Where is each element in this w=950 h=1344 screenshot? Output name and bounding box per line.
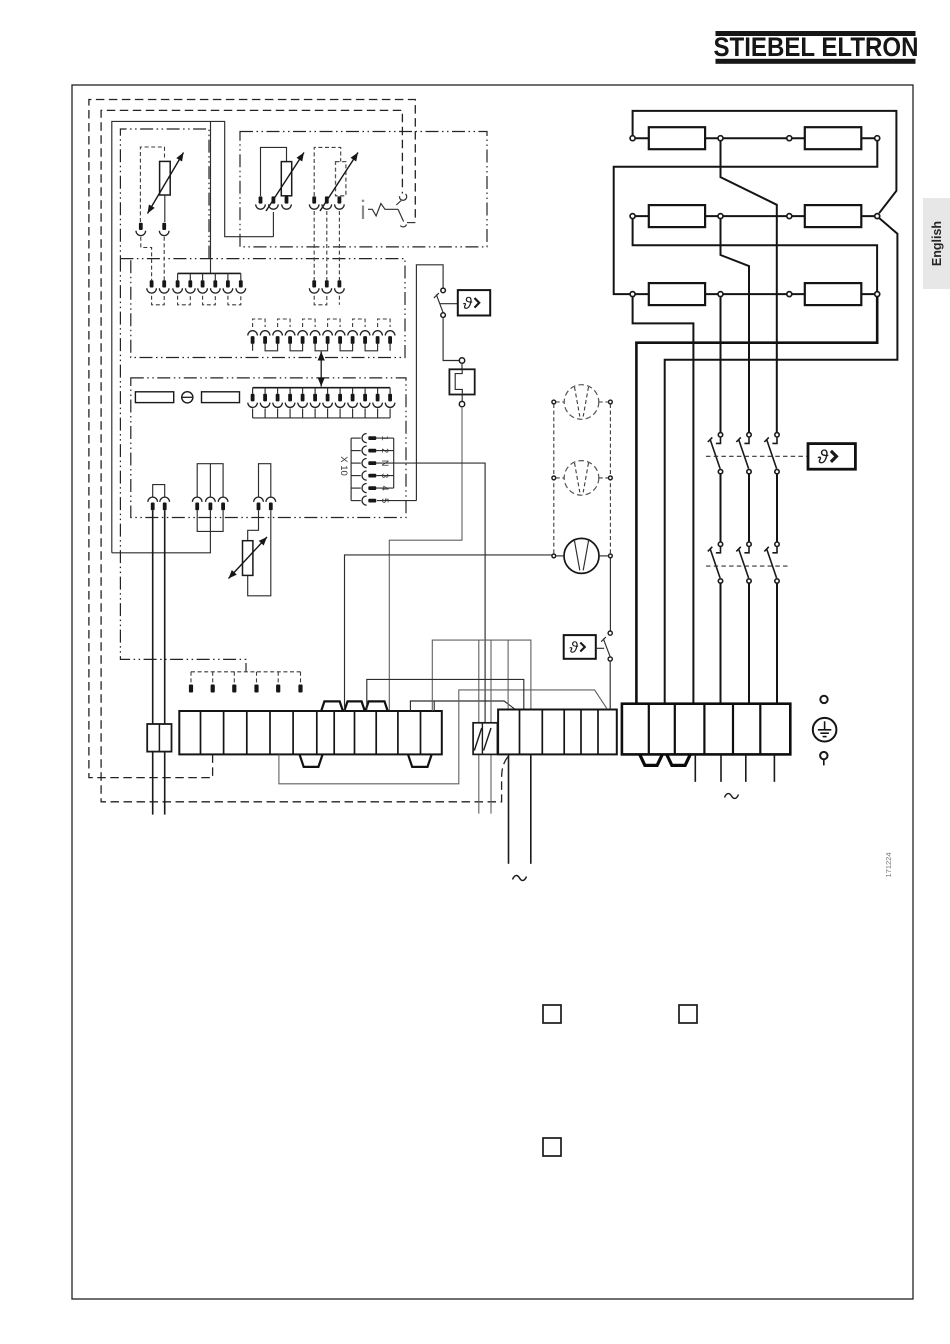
X4 jumper shoe 2 <box>667 754 691 765</box>
sensor bus wire (hook) <box>112 121 274 552</box>
svg-text:STIEBEL ELTRON: STIEBEL ELTRON <box>714 32 919 62</box>
sensor R3 arrow <box>320 153 358 212</box>
mains lead N <box>530 754 532 863</box>
bottom triple contacts <box>192 497 228 510</box>
K2 output wires <box>721 583 778 703</box>
K2 linkage line <box>706 565 790 567</box>
gray drop 3 <box>507 640 509 709</box>
S1 sensing line <box>440 303 458 305</box>
STB actuation zigzag <box>368 204 398 216</box>
dashed service line to comb <box>120 259 246 672</box>
X4 output leads <box>695 754 774 782</box>
contactor K2 pole 3 <box>764 542 779 583</box>
S1 blade tick <box>434 293 439 298</box>
English side tab <box>923 198 950 289</box>
X1 top plug bump 1 <box>321 701 343 711</box>
contactor K1 pole 1 <box>708 433 723 474</box>
X1 top plug bump 2 <box>344 701 365 711</box>
row3 bottom return <box>636 297 877 704</box>
page frame <box>72 85 913 1299</box>
S1 bottom contact <box>441 313 446 318</box>
X1 top plug bump 3 <box>365 701 387 711</box>
fan M1 (dashed option) <box>564 385 599 420</box>
NTC sensor R1 (outlet sensor) <box>160 161 171 222</box>
wire X10-5 to safety chain <box>377 265 443 501</box>
X3 row2 contacts <box>248 331 395 344</box>
F1 inner contact <box>455 369 462 394</box>
legend square 1 <box>543 1005 561 1023</box>
legend square 2 <box>679 1005 697 1023</box>
row3 to direct wire <box>633 297 694 704</box>
STB top contact <box>399 194 406 200</box>
junction terminal <box>459 358 464 363</box>
K1 linkage line <box>706 455 808 457</box>
X4 jumper shoe 1 <box>640 754 663 765</box>
bracket over 6 control contacts <box>178 273 241 280</box>
STB bottom contact stub wire <box>407 222 415 224</box>
sensor group B harness leads <box>314 211 339 280</box>
phase wire L1 drop <box>721 141 777 433</box>
T3 glyph <box>570 641 585 652</box>
service comb (dashed) <box>189 672 303 693</box>
PE upper terminal <box>820 696 827 703</box>
wire to flow switch <box>461 363 463 369</box>
X10 pins 1-4 strap <box>376 438 393 488</box>
display rectangle 1 <box>135 392 173 403</box>
fan M1 terminals <box>552 400 612 404</box>
inner dashed enclosure <box>101 110 508 801</box>
right bus wire <box>665 218 898 703</box>
fan thermostat box T3 <box>564 635 596 659</box>
bridge X1 to X2 upper <box>410 701 515 711</box>
adjuster circle <box>182 392 193 403</box>
wire X10-N <box>376 463 485 723</box>
bottom right pair contacts <box>254 497 276 510</box>
leads below terminal block <box>153 752 165 815</box>
link block with breaker marks <box>473 723 497 755</box>
AC tilde <box>513 876 527 881</box>
X10 left bracket <box>351 438 361 501</box>
bottom triple bracket <box>197 464 223 498</box>
svg-text:X 10: X 10 <box>338 456 349 476</box>
sensor 1 harness leads (dashed) <box>141 237 152 280</box>
heater row 2 elements E3 E4 <box>630 205 880 227</box>
legend square 3 <box>543 1138 561 1156</box>
external sensor loop <box>248 510 271 596</box>
S3 wire to X2 <box>609 661 611 709</box>
board interface arrow <box>318 352 325 387</box>
T1 glyph <box>463 297 479 309</box>
STB bottom contact <box>400 224 406 227</box>
PE lower terminal <box>820 752 827 766</box>
flow switch wire to strip1 <box>389 407 462 711</box>
phase wire L3 drop <box>720 297 722 433</box>
fan M2 (dashed option) <box>564 461 599 496</box>
terminal strip X4 body <box>622 704 790 755</box>
small 2-pole terminal block <box>147 724 171 752</box>
T3 sensing line <box>596 647 604 649</box>
electronics controller box (dash-dot-dot) <box>131 378 406 518</box>
NTC sensor R4 (external) <box>243 541 253 576</box>
sensor housing dashed box <box>140 147 164 222</box>
X10 terminal contacts <box>362 434 376 506</box>
bottom triple strap loop <box>197 510 223 531</box>
X10 pin labels <box>380 436 390 504</box>
terminal strip X2 body <box>498 710 617 755</box>
NTC sensor R3 (dashed option) <box>336 162 346 196</box>
bottom pair contacts bracket <box>153 485 165 498</box>
X3 row1 mating loops (dashed) <box>152 296 340 305</box>
contactor K2 pole 1 <box>708 542 723 583</box>
terminal interface box X3 (dash-dot-dot) <box>120 259 405 358</box>
sensor group A loop wiring <box>261 147 287 236</box>
gray drop 1 <box>478 640 480 814</box>
thermostat box T1 <box>458 290 490 315</box>
fan rail right (dashed) <box>609 404 611 554</box>
thermostat box T2 <box>808 444 855 470</box>
control panel box (dash-dot, sensor 1 housing) <box>120 129 209 259</box>
terminal strip X1 body <box>179 711 442 754</box>
fan supply wire from X1 <box>345 555 552 711</box>
protective earth symbol <box>813 718 837 742</box>
bracket feed wire <box>210 121 212 273</box>
fan M3 <box>564 538 599 573</box>
S3 bottom contact <box>608 657 612 661</box>
heater row 1 elements E1 E2 <box>630 127 880 149</box>
thermostat switch S1 top contact <box>441 288 446 293</box>
contactor K1 pole 3 <box>764 433 779 474</box>
fan M3 terminals <box>552 554 612 558</box>
display rectangle 2 <box>202 392 240 403</box>
X3 row1 contacts (six) <box>173 280 246 293</box>
phase wire L2 drop <box>721 219 750 433</box>
switch S3 top contact <box>608 631 612 635</box>
sensor group B contacts <box>309 196 344 209</box>
sensor R1 arrow <box>148 153 184 214</box>
X3 row1 contacts (triple) <box>309 280 344 293</box>
top sensor compartment box (dash-dot-dot) <box>240 132 487 247</box>
board connector contacts <box>248 394 395 408</box>
sensor group A contacts <box>256 196 292 209</box>
K1-K2 interconnect wires <box>721 474 778 542</box>
S3 blade <box>603 639 610 657</box>
S3 blade tick <box>601 637 606 642</box>
heater row1 return bus <box>614 141 878 294</box>
X3 row2 lower links <box>253 344 391 351</box>
bridge wire mid <box>367 679 524 711</box>
heater top bus wire <box>633 111 897 213</box>
X3 row2 dashed bridges <box>253 319 391 327</box>
NTC sensor R2 <box>281 162 291 196</box>
bottom right pair bracket <box>259 464 271 498</box>
contactor K1 pole 2 <box>736 433 751 474</box>
board connector bracket <box>253 388 391 394</box>
contactor K2 pole 2 <box>736 542 751 583</box>
X3 row1 contacts (pair) <box>147 280 169 293</box>
Stiebel Eltron logo <box>714 31 919 64</box>
leads from pair to terminal block <box>153 510 165 724</box>
gray n-bridge X1 to X2 <box>432 640 531 711</box>
STB symbol i-mark <box>362 200 365 220</box>
board connector comb <box>253 408 391 418</box>
triple mid wire to hook <box>112 510 211 553</box>
bottom pair contacts <box>148 497 170 510</box>
sensor group B dashed loop <box>314 147 341 196</box>
gray drop 2 <box>490 640 492 814</box>
fan M2 terminals <box>552 476 612 480</box>
fan M3 output wire <box>609 558 611 631</box>
svg-text:English: English <box>930 221 944 266</box>
wire S1 to junction <box>443 317 459 360</box>
load tilde <box>725 794 739 799</box>
sensor 1 plug contacts <box>136 223 169 236</box>
gray U-strap under X1 <box>279 690 607 784</box>
STB blade upper stub <box>396 201 401 206</box>
sensor R2 arrow <box>266 153 304 212</box>
X1 bottom plug notch 2 <box>408 754 432 767</box>
svg-text:171224: 171224 <box>884 852 893 877</box>
STB switch blade <box>398 209 404 221</box>
F1 lower terminal <box>461 395 463 402</box>
sensor R4 arrow <box>229 537 268 579</box>
mains lead L <box>508 754 510 863</box>
T2 glyph <box>818 449 837 463</box>
flow switch box F1 <box>449 369 474 394</box>
heater row 3 elements E5 E6 <box>630 283 880 305</box>
outer dashed enclosure (appliance housing) <box>89 100 415 778</box>
fan rail left (dashed) <box>553 404 555 554</box>
X1 bottom plug notch 1 <box>300 754 323 767</box>
S1 blade <box>436 295 443 313</box>
heater row2 return bus <box>633 219 878 292</box>
